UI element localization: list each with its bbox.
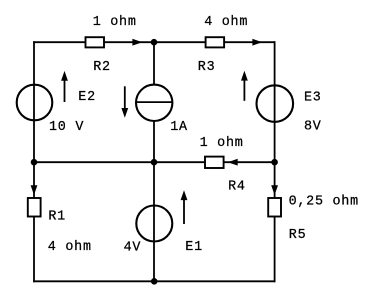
svg-text:E1: E1 [185, 240, 203, 255]
resistor R3 [206, 37, 225, 47]
wire right: outer loop right side [274, 41, 276, 282]
svg-text:1 ohm: 1 ohm [200, 136, 244, 151]
wire middle horizontal [34, 161, 275, 163]
resistor R4 [205, 157, 224, 168]
current arrow into R1 [31, 185, 38, 195]
current arrow into R5 [271, 185, 278, 195]
wire middle vertical [153, 42, 155, 281]
svg-text:1 ohm: 1 ohm [93, 15, 137, 30]
svg-text:1A: 1A [170, 120, 188, 135]
svg-text:R5: R5 [289, 228, 307, 243]
wire top: node A to node B [33, 41, 275, 43]
resistor R2 [86, 37, 105, 47]
voltage source E3 [257, 85, 294, 122]
svg-text:8V: 8V [304, 120, 322, 135]
resistor R1 [28, 198, 41, 217]
junction top middle [151, 39, 158, 46]
svg-text:4V: 4V [124, 240, 142, 255]
svg-text:E2: E2 [78, 90, 96, 105]
voltage source E1 [136, 206, 172, 242]
junction middle left [31, 159, 38, 166]
voltage arrow E3 (up) [241, 71, 248, 101]
svg-text:0,25 ohm: 0,25 ohm [289, 194, 359, 209]
current arrow of source I1 (down) [121, 86, 128, 118]
wire left: outer loop left side [33, 41, 35, 282]
svg-text:4 ohm: 4 ohm [204, 15, 248, 30]
voltage source E2 [17, 85, 53, 121]
resistor R5 [268, 198, 281, 217]
svg-text:R4: R4 [228, 180, 246, 195]
wire bottom [33, 280, 275, 282]
svg-text:R1: R1 [48, 210, 66, 225]
current source I1 (1A) [136, 85, 172, 121]
svg-text:R3: R3 [198, 60, 216, 75]
junction middle center [151, 159, 158, 166]
current arrow through R3 [252, 39, 262, 46]
junction bottom middle [151, 278, 158, 285]
svg-text:R2: R2 [93, 60, 111, 75]
svg-text:10 V: 10 V [49, 120, 84, 135]
svg-text:E3: E3 [304, 90, 322, 105]
svg-text:4 ohm: 4 ohm [48, 240, 92, 255]
junction middle right [271, 159, 278, 166]
current arrow through R2 [132, 39, 142, 46]
voltage arrow E2 (up) [61, 71, 68, 102]
voltage arrow E1 (up) [181, 190, 188, 224]
current arrow through R4 [228, 159, 238, 166]
